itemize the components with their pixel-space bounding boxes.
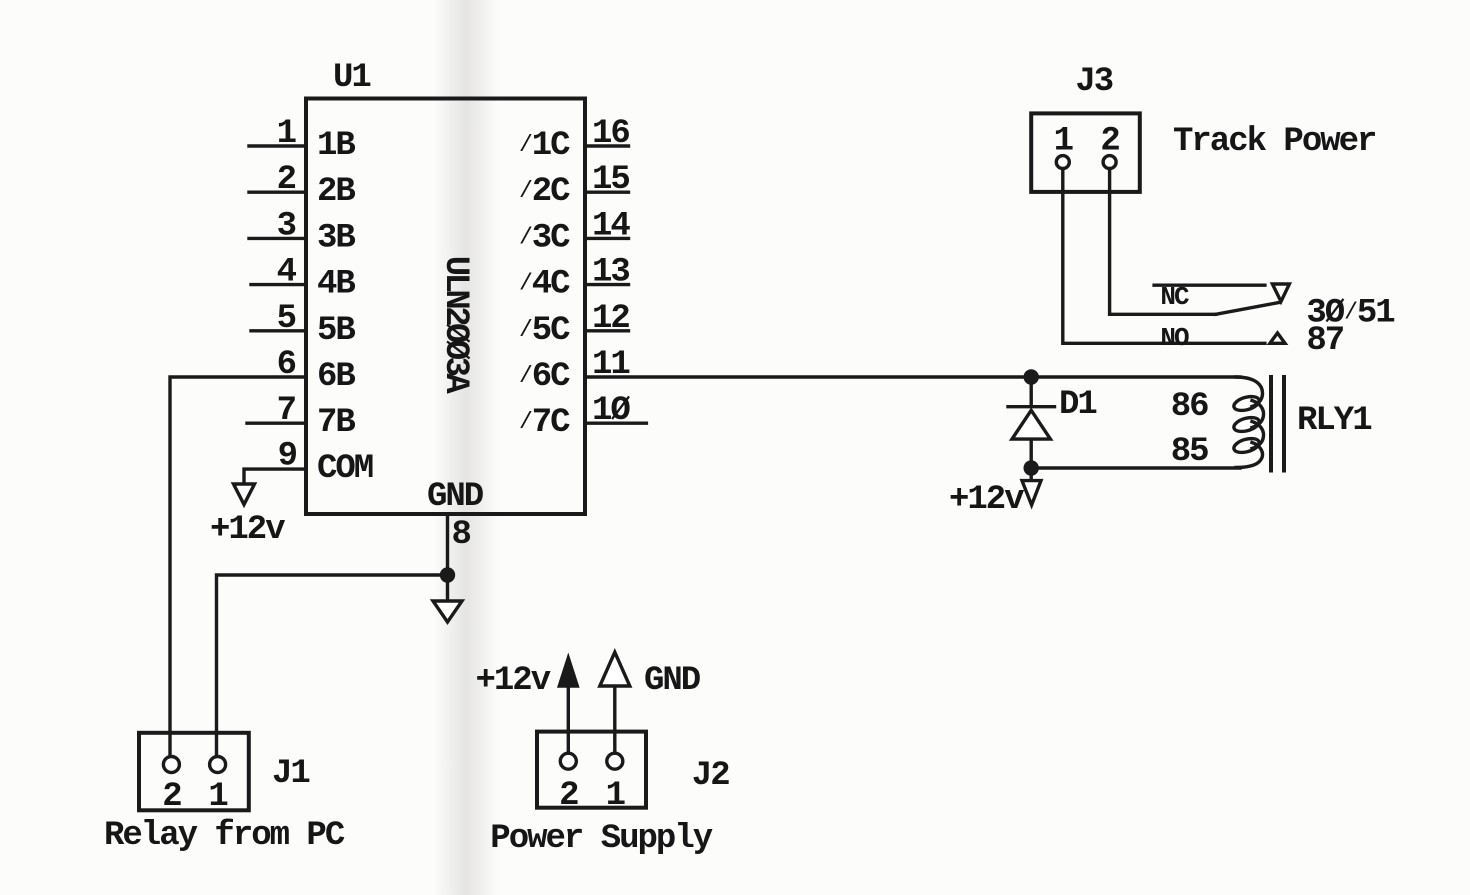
junction at D1 anode [1025,371,1037,383]
svg-text:2: 2 [277,161,296,199]
wire relay coil bottom [1031,466,1240,469]
junction at pin 8 [442,569,454,581]
svg-text:⁄1C: ⁄1C [518,127,570,165]
NO contact arrow [1270,333,1285,343]
svg-text:U1: U1 [333,59,370,97]
U1 pin 14 (/3C) wire [585,237,629,240]
svg-text:15: 15 [592,161,629,199]
svg-text:7: 7 [277,392,296,430]
svg-text:1: 1 [1054,123,1073,161]
U1 pin 3 (3B) wire [249,237,306,240]
svg-text:5B: 5B [317,312,355,350]
J3 pin 2 circle [1103,156,1116,169]
svg-text:⁄3C: ⁄3C [518,219,570,257]
U1 pin 7 (7B) wire [247,422,306,425]
U1 pin 16 (/1C) wire [585,144,629,147]
svg-text:8: 8 [452,516,471,554]
wire J2 pin 1 to GND [613,686,616,753]
relay coil loop 3 [1232,436,1260,455]
svg-text:4: 4 [277,254,297,292]
svg-text:2: 2 [162,778,181,816]
svg-text:5: 5 [277,300,296,338]
U1 pin 13 (/4C) wire [585,283,629,286]
svg-text:3B: 3B [317,219,355,257]
svg-text:9: 9 [278,438,297,476]
svg-text:⁄5C: ⁄5C [518,312,570,350]
U1 pin 12 (/5C) wire [585,329,629,332]
U1 pin 4 (4B) wire [251,283,306,286]
wire U1 pin 6 to J1 pin 2 [170,377,306,757]
IC U1 body [306,99,585,515]
wire GND net to J1 pin 1 [217,575,448,757]
wire U1 pin 11 (/6C) to relay coil [585,375,1240,378]
svg-text:GND: GND [427,478,484,516]
relay coil loop 1 [1232,394,1260,413]
svg-text:NC: NC [1160,282,1189,312]
U1 pin 8 (GND) wire [446,514,449,575]
svg-text:87: 87 [1306,322,1343,360]
svg-text:+12v: +12v [210,511,285,549]
U1 pin 9 (COM) wire [244,469,306,484]
svg-text:D1: D1 [1059,386,1096,424]
svg-text:1: 1 [208,778,227,816]
relay RLY1 coil [1236,377,1264,468]
svg-text:GND: GND [644,662,701,700]
svg-text:Power Supply: Power Supply [490,820,712,858]
svg-text:13: 13 [592,254,629,292]
scanner band artifact [434,0,498,895]
connector J1 body [139,733,249,811]
svg-text:2B: 2B [317,173,355,211]
connector J2 body [537,732,646,808]
+12v arrow at COM [234,484,255,505]
J1 pin 1 circle [210,757,226,773]
svg-text:6: 6 [277,346,296,384]
svg-text:11: 11 [592,346,629,384]
svg-text:86: 86 [1171,388,1208,426]
svg-text:ULN2ØØ3A: ULN2ØØ3A [436,256,474,395]
J3 pin 1 circle [1056,156,1069,169]
GND power arrow (open) [600,652,630,686]
junction at D1 cathode [1025,462,1037,474]
svg-text:7B: 7B [317,404,355,442]
J1 pin 2 circle [163,757,179,773]
svg-text:Track Power: Track Power [1173,123,1375,161]
wire J3 pin 2 to relay common [1110,169,1216,315]
U1 pin 1 (1B) wire [249,144,306,147]
relay coil loop 2 [1232,415,1260,434]
+12v power arrow (filled) [559,658,577,686]
svg-text:1Ø: 1Ø [592,392,630,430]
svg-text:J3: J3 [1075,63,1112,101]
U1 pin 15 (/2C) wire [585,190,629,193]
svg-text:J2: J2 [692,757,729,795]
svg-text:⁄7C: ⁄7C [518,404,570,442]
svg-text:+12v: +12v [949,481,1024,519]
relay NC contact wire [1154,284,1265,287]
svg-text:1: 1 [277,115,296,153]
U1 pin 10 (/7C) wire [585,422,646,425]
svg-text:12: 12 [592,300,629,338]
svg-text:COM: COM [317,450,373,488]
wire J2 pin 2 to +12v [567,686,570,753]
relay core bars [1271,377,1284,471]
svg-text:3: 3 [277,207,296,245]
svg-text:85: 85 [1171,433,1208,471]
diode D1 [1008,377,1055,468]
svg-text:RLY1: RLY1 [1297,402,1371,440]
svg-text:1B: 1B [317,127,355,165]
svg-text:J1: J1 [272,755,309,793]
svg-text:⁄6C: ⁄6C [518,358,570,396]
J2 pin 2 circle [560,753,576,769]
J2 pin 1 circle [607,753,623,769]
U1 pin 2 (2B) wire [249,190,306,193]
svg-text:16: 16 [592,115,629,153]
svg-text:⁄2C: ⁄2C [518,173,570,211]
svg-text:6B: 6B [317,358,355,396]
svg-text:14: 14 [592,207,630,245]
connector J3 body [1031,113,1140,191]
ground symbol [433,575,462,622]
svg-text:NO: NO [1160,323,1189,353]
svg-text:Relay from PC: Relay from PC [104,817,345,855]
wire J3 pin 1 to relay NO contact [1063,169,1265,344]
svg-text:1: 1 [606,777,625,815]
svg-text:+12v: +12v [476,662,551,700]
svg-text:2: 2 [1100,123,1119,161]
U1 pin 5 (5B) wire [251,329,306,332]
relay moving blade [1216,303,1279,315]
svg-text:4B: 4B [317,266,355,304]
NC contact arrow [1272,284,1289,302]
svg-text:⁄4C: ⁄4C [518,266,570,304]
+12v arrow below D1 [1022,468,1041,505]
svg-text:2: 2 [559,777,578,815]
